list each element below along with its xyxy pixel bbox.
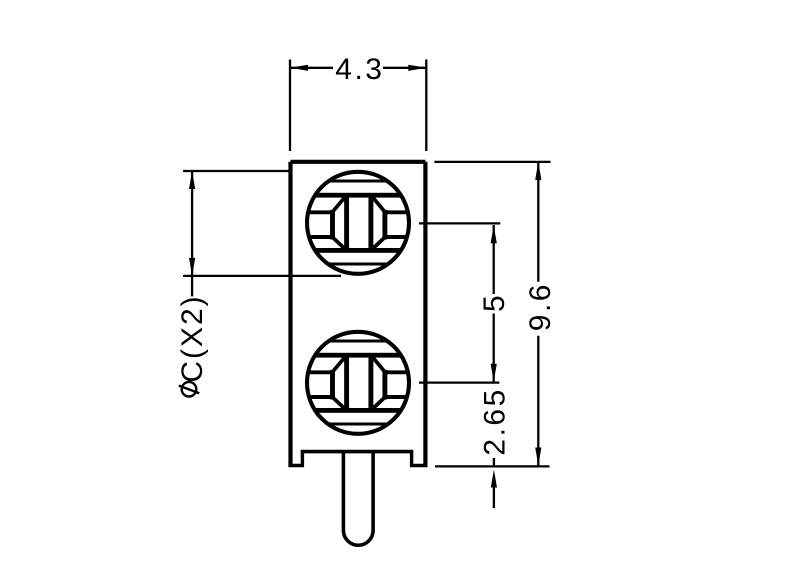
LED A stem left line: [344, 195, 349, 251]
LED B right hatch segment top: [385, 370, 414, 374]
svg-text:5: 5: [478, 293, 511, 312]
LED B slant top-left: [332, 355, 346, 372]
dimension 4.3 extension line left: [289, 60, 291, 152]
LED A right hatch segment top: [385, 210, 414, 214]
dimension 5 arrow up: [491, 225, 497, 243]
dimension 2.65 line upper stub: [493, 458, 495, 466]
LED A left hatch segment top: [303, 210, 333, 214]
dimension 5 line upper segment: [493, 225, 495, 294]
dimension 5 arrow down: [491, 364, 497, 382]
dimension 5 extension line top: [419, 222, 500, 224]
body outline: [291, 162, 426, 466]
dimension phiC extension line top: [183, 170, 289, 172]
dimension 9.6 and 2.65 extension line bottom: [435, 465, 550, 467]
LED A left hatch segment bottom: [303, 235, 333, 239]
LED A slant bottom-right: [371, 237, 385, 250]
dimension 9.6 line lower segment: [537, 336, 539, 466]
body bottom right foot: [412, 452, 428, 466]
LED A internals: [303, 181, 413, 264]
dimension 9.6 text: [524, 282, 557, 331]
LED B internals: [303, 341, 413, 424]
LED B slant bottom-left: [332, 397, 346, 410]
dimension 4.3 line left segment: [290, 67, 333, 69]
body bottom left foot: [288, 452, 302, 466]
LED B reflector right edge: [382, 372, 387, 397]
LED B stem right line: [368, 355, 373, 411]
svg-text:C(X2): C(X2): [176, 294, 209, 382]
LED B top bar: [313, 353, 403, 358]
LED A slant top-left: [332, 195, 346, 212]
LED B slant top-right: [371, 355, 385, 372]
dimension 4.3 line right segment: [383, 67, 426, 69]
svg-text:4.3: 4.3: [335, 53, 384, 86]
dimension phiC arrow up: [189, 171, 195, 189]
LED A slant top-right: [371, 195, 385, 212]
dimension 2.65 arrow below pointing up: [491, 470, 497, 488]
lead pin: [343, 452, 373, 546]
dimension 2.65 tail below: [493, 488, 495, 509]
dimension 5 line lower segment: [493, 314, 495, 383]
LED B lens circle: [307, 332, 409, 434]
LED A top bar: [313, 193, 403, 198]
LED A reflector right edge: [382, 212, 387, 237]
LED B left hatch segment bottom: [303, 395, 333, 399]
LED B bottom bar: [313, 408, 403, 413]
LED B bottom chord hatch: [305, 423, 411, 426]
LED A top chord hatch: [305, 180, 411, 183]
LED A bottom bar: [313, 248, 403, 253]
dimension phiC text C(X2): [176, 294, 209, 382]
LED B slant bottom-right: [371, 397, 385, 410]
LED B top chord hatch: [305, 340, 411, 343]
LED B reflector left edge: [330, 372, 335, 397]
LED A right hatch segment bottom: [385, 235, 414, 239]
svg-text:9.6: 9.6: [524, 282, 557, 331]
dimension phiC extension line bottom: [183, 275, 341, 277]
dimension 5 text: [478, 293, 511, 312]
LED A slant bottom-left: [332, 237, 346, 250]
dimension 9.6 arrow down: [535, 448, 541, 466]
dimension 2.65 text: [479, 387, 512, 455]
dimension phiC diameter symbol slash: [179, 386, 199, 394]
LED B stem left line: [344, 355, 349, 411]
dimension phiC arrow down: [189, 258, 195, 276]
dimension 4.3 arrow right: [408, 65, 426, 71]
dimension 4.3 arrow left: [290, 65, 308, 71]
LED B left hatch segment top: [303, 370, 333, 374]
LED A lens circle: [307, 172, 409, 274]
dimension 9.6 line upper segment: [537, 162, 539, 282]
dimension 9.6 arrow up: [535, 162, 541, 180]
LED A bottom chord hatch: [305, 263, 411, 266]
LED A reflector left edge: [330, 212, 335, 237]
LED B right hatch segment bottom: [385, 395, 414, 399]
dimension phiC diameter symbol circle: [182, 382, 197, 397]
body bottom shelf: [301, 450, 414, 454]
dimension 4.3 extension line right: [425, 60, 427, 152]
dimension 5 extension line bottom: [419, 381, 499, 383]
svg-text:2.65: 2.65: [479, 387, 512, 455]
dimension 9.6 extension line top: [434, 161, 550, 163]
dimension phiC line: [191, 171, 193, 296]
LED A stem right line: [368, 195, 373, 251]
